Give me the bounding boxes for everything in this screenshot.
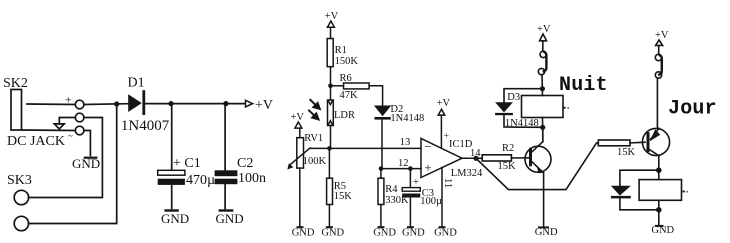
- svg-text:RV1: RV1: [304, 133, 323, 144]
- svg-text:GND: GND: [651, 225, 674, 236]
- svg-text:1N4148: 1N4148: [505, 118, 539, 129]
- svg-text:Jour: Jour: [668, 98, 717, 121]
- svg-text:R6: R6: [340, 73, 352, 84]
- svg-text:1N4007: 1N4007: [121, 118, 170, 134]
- svg-text:GND: GND: [434, 227, 457, 238]
- svg-text:+V: +V: [537, 24, 551, 35]
- svg-text:+: +: [413, 177, 419, 188]
- svg-text:150K: 150K: [335, 56, 359, 67]
- svg-text:SK3: SK3: [7, 173, 32, 188]
- svg-text:D1: D1: [128, 76, 145, 91]
- svg-text:15K: 15K: [498, 161, 517, 172]
- svg-text:100µ: 100µ: [420, 196, 442, 207]
- svg-text:11: 11: [442, 178, 453, 188]
- svg-text:GND: GND: [216, 211, 244, 226]
- svg-text:C2: C2: [237, 156, 253, 171]
- svg-text:R1: R1: [335, 45, 347, 56]
- svg-text:R4: R4: [385, 184, 398, 195]
- svg-text:D3: D3: [507, 92, 520, 103]
- svg-text:GND: GND: [161, 211, 189, 226]
- svg-text:+V: +V: [437, 98, 451, 109]
- svg-text:LM324: LM324: [451, 168, 483, 179]
- svg-text:+: +: [424, 160, 431, 175]
- svg-text:GND: GND: [292, 227, 315, 238]
- svg-text:100n: 100n: [238, 171, 266, 186]
- svg-text:−: −: [424, 139, 431, 154]
- svg-text:+V: +V: [255, 98, 273, 113]
- svg-text:15K: 15K: [334, 191, 353, 202]
- svg-text:SK2: SK2: [3, 76, 28, 91]
- svg-text:~: ~: [68, 131, 73, 141]
- svg-text:+V: +V: [655, 30, 669, 41]
- svg-text:GND: GND: [535, 227, 558, 238]
- svg-text:Nuit: Nuit: [559, 74, 608, 97]
- svg-text:330K: 330K: [385, 195, 409, 206]
- svg-text:13: 13: [400, 137, 411, 148]
- svg-text:GND: GND: [72, 156, 100, 171]
- svg-text:R2: R2: [502, 143, 514, 154]
- svg-text:GND: GND: [402, 227, 425, 238]
- svg-text:470µ: 470µ: [186, 173, 215, 188]
- svg-text:GND: GND: [373, 227, 396, 238]
- svg-text:+V: +V: [325, 11, 339, 22]
- svg-text:15K: 15K: [617, 147, 636, 158]
- svg-text:LDR: LDR: [334, 110, 355, 121]
- svg-text:GND: GND: [321, 227, 344, 238]
- svg-text:+: +: [444, 131, 449, 141]
- svg-text:12: 12: [398, 158, 409, 169]
- svg-text:+V: +V: [291, 112, 305, 123]
- svg-text:100K: 100K: [303, 156, 327, 167]
- svg-text:1N4148: 1N4148: [390, 113, 424, 124]
- svg-text:+: +: [65, 95, 72, 107]
- svg-text:DC JACK: DC JACK: [7, 134, 65, 149]
- svg-text:+ C1: + C1: [173, 156, 201, 171]
- svg-text:47K: 47K: [340, 90, 359, 101]
